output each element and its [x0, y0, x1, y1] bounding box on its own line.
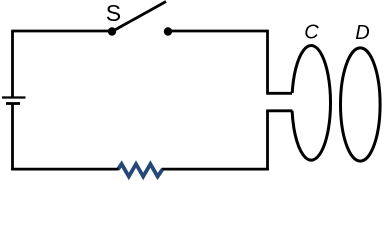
- switch S right terminal: [164, 27, 172, 35]
- wire right vertical lower: [266, 111, 269, 171]
- resistor (zigzag): [118, 164, 162, 177]
- wire top (switch to top-right corner): [168, 30, 268, 33]
- wire bottom (right segment to resistor): [162, 168, 269, 171]
- surface loop C (open ellipse arc, gap at capacitor leads): [292, 46, 330, 161]
- wire top (left segment to switch): [11, 30, 112, 33]
- wire bottom (resistor to bottom-left corner): [11, 168, 118, 171]
- svg-text:S: S: [106, 0, 121, 26]
- wire left vertical (battery to top-left corner): [11, 31, 14, 98]
- wire right vertical upper: [266, 30, 269, 94]
- wire capacitor bottom lead: [266, 109, 292, 112]
- wire capacitor top lead: [266, 92, 292, 95]
- svg-text:D: D: [355, 22, 369, 44]
- battery negative plate (short): [6, 102, 20, 105]
- switch S lever: [112, 2, 166, 32]
- switch S left terminal: [108, 27, 116, 35]
- surface loop D (ellipse): [341, 48, 381, 161]
- wire left vertical (bottom-left corner to battery): [11, 104, 14, 171]
- battery positive plate (long): [2, 96, 26, 98]
- svg-text:C: C: [304, 21, 319, 43]
